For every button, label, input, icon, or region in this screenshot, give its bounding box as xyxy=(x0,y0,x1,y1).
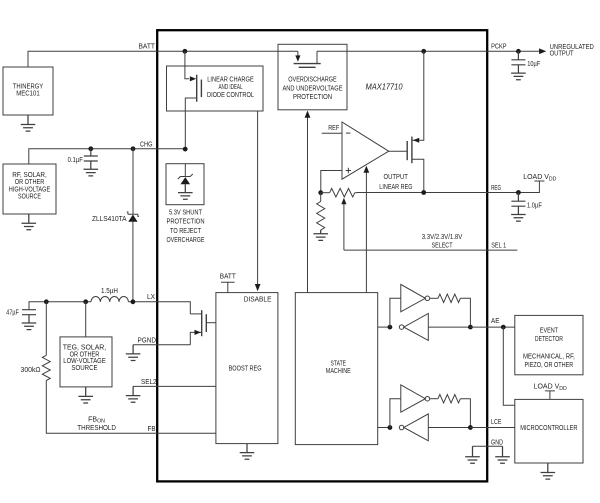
svg-text:DIODE CONTROL: DIODE CONTROL xyxy=(207,92,254,99)
block state machine xyxy=(295,293,377,445)
svg-text:SOURCE: SOURCE xyxy=(18,194,41,201)
capacitor 10uF xyxy=(511,51,540,79)
ground external at GND xyxy=(495,446,510,463)
arrowhead DISABLE into boost reg xyxy=(255,284,261,291)
source block RF solar high-voltage xyxy=(3,164,56,214)
transistor in overdischarge block xyxy=(294,51,321,67)
arrowhead unregulated output xyxy=(539,48,546,54)
label FB ON threshold xyxy=(77,417,116,433)
svg-text:ZLLS410TA: ZLLS410TA xyxy=(92,216,127,223)
label AE pin xyxy=(491,318,500,325)
wire GND pin xyxy=(473,445,503,447)
wire SEL2 xyxy=(133,385,216,387)
svg-text:SELECT: SELECT xyxy=(432,243,454,250)
wire PCKP output xyxy=(487,50,540,52)
potentiometer feedback divider xyxy=(321,188,358,197)
label PGND pin xyxy=(138,338,157,345)
wire CHG net xyxy=(29,149,186,164)
op-amp output linear reg xyxy=(342,122,389,179)
svg-text:3.3V/2.3V/1.8V: 3.3V/2.3V/1.8V xyxy=(422,234,463,241)
label MAX17710 xyxy=(366,82,403,92)
wire BATT net xyxy=(28,51,487,67)
ground internal at GND xyxy=(465,446,480,463)
block overdischarge and undervoltage protection xyxy=(278,44,347,110)
terminal LOAD VDD at REG xyxy=(534,180,544,182)
node LX at 300k xyxy=(44,299,49,304)
svg-text:5.3V SHUNT: 5.3V SHUNT xyxy=(169,210,203,217)
wire REG to load xyxy=(487,181,539,193)
ground at PGND xyxy=(126,345,141,361)
node AE branch xyxy=(501,325,506,330)
capacitor 1.0uF xyxy=(511,193,542,222)
svg-text:AND UNDERVOLTAGE: AND UNDERVOLTAGE xyxy=(283,85,343,92)
svg-text:MEC101: MEC101 xyxy=(16,91,40,98)
svg-text:LINEAR CHARGE: LINEAR CHARGE xyxy=(207,77,254,84)
svg-text:MICROCONTROLLER: MICROCONTROLLER xyxy=(520,425,577,432)
wire LCE output xyxy=(470,427,514,429)
svg-text:GND: GND xyxy=(491,439,503,446)
svg-text:LINEAR REG: LINEAR REG xyxy=(379,184,412,191)
wire linear charge to CHG xyxy=(184,111,186,149)
zener diode in shunt block xyxy=(178,164,193,200)
svg-text:0.1µF: 0.1µF xyxy=(68,157,83,164)
wire LX to chip xyxy=(128,302,190,314)
label LOAD VDD at REG xyxy=(523,174,556,182)
ground at SEL2 xyxy=(126,386,141,402)
wire SEL1 outside xyxy=(487,249,517,251)
svg-text:OUTPUT: OUTPUT xyxy=(550,51,575,58)
block microcontroller xyxy=(515,399,583,463)
label FB pin xyxy=(148,426,156,433)
wire LX to 300k xyxy=(45,302,47,356)
svg-text:AND IDEAL: AND IDEAL xyxy=(219,84,243,91)
ground below boost reg xyxy=(240,444,255,460)
label SEL2 pin xyxy=(141,379,157,386)
svg-text:LCE: LCE xyxy=(491,419,502,426)
svg-text:CHG: CHG xyxy=(140,142,153,149)
node BATT junction at linear charge xyxy=(183,49,188,54)
svg-text:DISABLE: DISABLE xyxy=(244,297,272,304)
transistor boost NMOS xyxy=(190,310,216,345)
svg-text:TO REJECT: TO REJECT xyxy=(170,228,202,235)
svg-text:OVERDISCHARGE: OVERDISCHARGE xyxy=(288,77,337,84)
svg-text:PCKP: PCKP xyxy=(491,44,507,51)
svg-text:BOOST REG: BOOST REG xyxy=(229,366,262,373)
svg-text:OR OTHER: OR OTHER xyxy=(15,179,45,186)
ground below THINERGY xyxy=(21,115,36,131)
wiper arrow of potentiometer xyxy=(341,198,346,250)
wire AE output xyxy=(470,326,514,328)
label LOAD VDD at microcontroller xyxy=(534,384,567,392)
svg-text:STATE: STATE xyxy=(331,361,347,368)
label SEL 1 pin xyxy=(491,243,506,250)
block event detector xyxy=(515,315,583,374)
ground below microcontroller xyxy=(541,463,556,479)
svg-text:PIEZO, OR OTHER: PIEZO, OR OTHER xyxy=(525,362,574,369)
battery block THINERGY MEC101 xyxy=(3,67,53,115)
ground below TEG source xyxy=(78,387,93,403)
resistor 300k xyxy=(42,355,50,380)
label output linear reg xyxy=(379,174,412,191)
capacitor 47uF xyxy=(6,309,36,329)
caption 5.3V shunt xyxy=(167,210,205,245)
svg-text:FB: FB xyxy=(148,426,156,433)
svg-text:PGND: PGND xyxy=(138,338,157,345)
svg-text:300kΩ: 300kΩ xyxy=(21,367,41,374)
wire FB inside chip xyxy=(157,432,216,434)
node feedback divider top xyxy=(318,190,323,195)
label BATT above boost xyxy=(220,273,237,280)
label ZLLS410TA xyxy=(92,216,127,223)
wire opamp output xyxy=(389,150,408,152)
svg-text:1.5µH: 1.5µH xyxy=(101,288,118,295)
resistor feedback lower xyxy=(317,193,325,231)
inductor 1.5uH xyxy=(91,288,128,302)
block boost reg xyxy=(216,293,278,444)
svg-text:PROTECTION: PROTECTION xyxy=(167,219,205,226)
svg-text:HIGH-VOLTAGE: HIGH-VOLTAGE xyxy=(9,186,51,193)
arrowhead into overdischarge block xyxy=(305,111,311,118)
node LX at schottky xyxy=(131,299,136,304)
svg-text:SEL2: SEL2 xyxy=(141,379,157,386)
svg-text:THRESHOLD: THRESHOLD xyxy=(77,425,116,432)
label REG pin xyxy=(491,185,501,192)
svg-text:MAX17710: MAX17710 xyxy=(366,82,403,92)
wire SEL1 inside chip xyxy=(344,249,487,251)
ground below RF solar source xyxy=(22,214,37,230)
ground below feedback resistor xyxy=(313,230,328,240)
schottky diode ZLLS410TA xyxy=(127,149,139,302)
svg-text:MACHINE: MACHINE xyxy=(326,368,351,375)
svg-text:SOURCE: SOURCE xyxy=(71,365,98,372)
svg-text:FBON: FBON xyxy=(88,417,105,425)
svg-text:REF: REF xyxy=(328,125,339,132)
svg-text:SEL 1: SEL 1 xyxy=(491,243,506,250)
svg-text:AE: AE xyxy=(491,318,500,325)
svg-text:47µF: 47µF xyxy=(6,309,19,316)
svg-text:EVENT: EVENT xyxy=(540,327,559,334)
svg-text:BATT: BATT xyxy=(220,273,237,280)
node REG at 1uF xyxy=(516,190,521,195)
svg-text:OVERCHARGE: OVERCHARGE xyxy=(167,237,205,244)
block linear charge and ideal diode control xyxy=(167,66,264,111)
wire 300k to FB xyxy=(46,381,157,434)
transistor output linear reg xyxy=(407,51,424,192)
terminal BATT stub on boost reg xyxy=(221,282,235,292)
svg-text:LX: LX xyxy=(147,294,155,301)
svg-text:THINERGY: THINERGY xyxy=(13,84,44,91)
label select voltage xyxy=(422,234,463,250)
node REG at FET xyxy=(421,190,426,195)
svg-text:MECHANICAL, RF,: MECHANICAL, RF, xyxy=(523,354,575,361)
label PCKP pin xyxy=(491,44,507,51)
wire REG net xyxy=(357,192,487,194)
source block TEG low-voltage xyxy=(60,337,112,387)
wire opamp plus input xyxy=(321,171,342,194)
svg-text:REG: REG xyxy=(491,185,501,192)
svg-text:1.0µF: 1.0µF xyxy=(527,203,542,210)
wire state machine to opamp xyxy=(365,171,367,293)
wire DISABLE from linear charge block xyxy=(257,111,259,285)
svg-text:DETECTOR: DETECTOR xyxy=(535,336,563,343)
node CHG at shunt xyxy=(183,147,188,152)
arrowhead into opamp xyxy=(364,166,370,173)
svg-text:RF, SOLAR,: RF, SOLAR, xyxy=(12,172,47,179)
wire LX net xyxy=(29,302,91,310)
capacitor 0.1uF xyxy=(68,149,98,176)
label BATT pin xyxy=(139,43,156,50)
block 5.3V shunt protection xyxy=(166,164,204,205)
wire PGND xyxy=(133,344,190,346)
label LCE pin xyxy=(491,419,502,426)
node CHG at 0.1uF xyxy=(88,146,93,151)
node BATT junction at PCKP FET xyxy=(421,49,426,54)
label unregulated output xyxy=(550,44,594,58)
wire TEG to LX xyxy=(85,302,87,337)
node LX at TEG source xyxy=(83,299,88,304)
node CHG at schottky xyxy=(131,146,136,151)
svg-text:10µF: 10µF xyxy=(527,61,540,68)
label REF xyxy=(322,125,342,133)
transistor in linear charge block xyxy=(185,51,202,111)
label LX pin xyxy=(147,294,155,301)
IC outline MAX17710 xyxy=(157,30,487,481)
wire AE to microcontroller xyxy=(503,327,515,405)
terminal LOAD VDD stub on microcontroller xyxy=(545,391,555,400)
inverter pair LCE row xyxy=(378,385,473,441)
label 300k xyxy=(21,367,41,374)
svg-text:LOAD VDD: LOAD VDD xyxy=(523,174,556,182)
wire state machine to overdischarge xyxy=(307,117,309,293)
label CHG pin xyxy=(140,142,153,149)
svg-text:PROTECTION: PROTECTION xyxy=(293,94,332,101)
node PCKP at 10uF xyxy=(516,49,521,54)
inverter pair AE row xyxy=(378,284,473,340)
svg-text:OUTPUT: OUTPUT xyxy=(384,174,409,181)
label GND pin xyxy=(491,439,503,446)
svg-text:BATT: BATT xyxy=(139,43,156,50)
